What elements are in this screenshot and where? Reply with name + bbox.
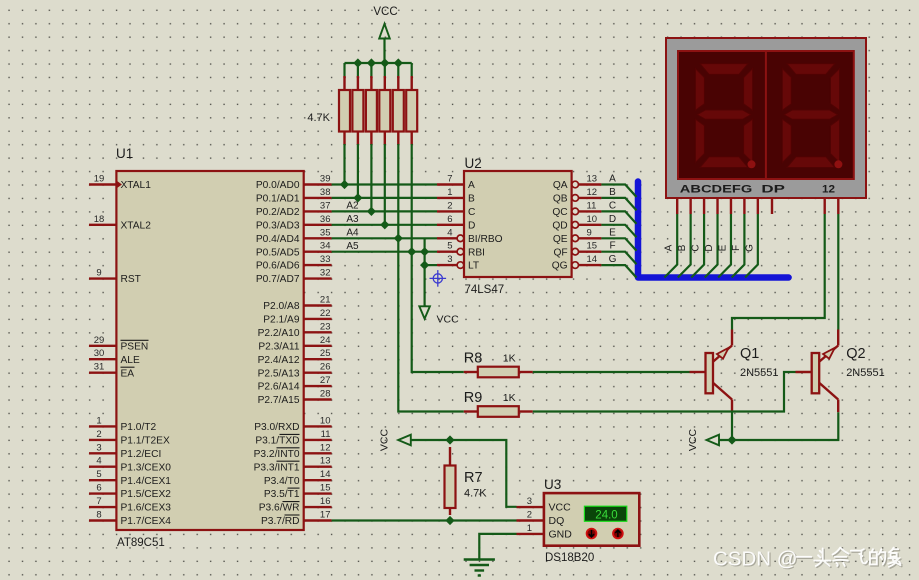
resistor R9 left lead: [464, 410, 478, 412]
svg-text:BI/RBO: BI/RBO: [468, 234, 503, 245]
svg-text:7: 7: [447, 174, 452, 185]
overline for P3.6/WR: [283, 501, 300, 503]
svg-text:G: G: [609, 254, 617, 265]
svg-text:37: 37: [320, 200, 331, 211]
wire - display G to bus: [745, 214, 758, 278]
svg-text:R9: R9: [464, 390, 483, 406]
display pin 1 stub: [824, 198, 826, 214]
svg-text:VCC: VCC: [379, 428, 391, 451]
U1 pin 31 (EA) stub: [89, 372, 116, 374]
svg-text:C: C: [609, 200, 616, 211]
svg-text:38: 38: [320, 187, 331, 198]
display digit divider: [765, 51, 767, 179]
U2 pin 5 bubble: [457, 248, 464, 255]
digit 1 decimal point: [748, 160, 756, 168]
svg-text:P3.5/T1: P3.5/T1: [264, 489, 300, 500]
svg-text:3: 3: [96, 442, 101, 453]
overline for P3.1/TXD: [280, 433, 300, 435]
svg-text:P0.6/AD6: P0.6/AD6: [256, 261, 300, 272]
svg-text:RBI: RBI: [468, 247, 485, 258]
display pin G stub: [757, 198, 759, 214]
display DP stub: [771, 198, 773, 214]
svg-text:A: A: [468, 180, 475, 191]
resistor RP6 (4.7K pack) top lead: [411, 76, 413, 90]
U2 pin 5 (RBI) stub: [437, 250, 457, 252]
display pin F stub: [743, 198, 745, 214]
U2 pin 11 (QC) stub: [578, 210, 601, 212]
U1 pin 4 (P1.3/CEX0) stub: [89, 466, 116, 468]
overline for P3.5/T1: [288, 487, 300, 489]
U2 pin 13 (QA) bubble: [572, 181, 579, 188]
ground symbol: [464, 558, 495, 560]
svg-text:5: 5: [96, 469, 101, 480]
svg-text:P0.0/AD0: P0.0/AD0: [256, 180, 300, 191]
resistor RP4 body: [379, 90, 390, 132]
wire - display pin1 to Q1 collector: [732, 214, 825, 330]
resistor RP6 bottom lead: [411, 132, 413, 146]
wire - P0.5 row to U2: [332, 251, 437, 253]
svg-text:P3.7/RD: P3.7/RD: [261, 516, 300, 527]
svg-text:A: A: [609, 174, 616, 185]
svg-text:6: 6: [96, 483, 101, 494]
svg-text:P1.2/ECI: P1.2/ECI: [121, 449, 162, 460]
resistor RP2 (4.7K pack) top lead: [357, 76, 359, 90]
U1 pin 18 (XTAL2) stub: [89, 224, 116, 226]
resistor RP4 (4.7K pack) top lead: [384, 76, 386, 90]
U3 down button: [587, 529, 597, 539]
svg-text:D: D: [468, 220, 475, 231]
digit 1 segments: [695, 64, 752, 168]
clock marker on XTAL1: [116, 181, 122, 189]
wire - GND net: [479, 534, 516, 560]
svg-text:10: 10: [320, 415, 331, 426]
wire - P0.4 row to U2: [332, 237, 437, 239]
svg-text:P1.3/CEX0: P1.3/CEX0: [121, 462, 172, 473]
wire - VCC rail to U3 pin3: [411, 440, 517, 507]
svg-text:15: 15: [320, 483, 331, 494]
svg-text:12: 12: [822, 184, 835, 196]
U2 pin 15 (QF) bubble: [572, 248, 579, 255]
svg-text:P0.2/AD2: P0.2/AD2: [256, 207, 300, 218]
U1 pin 33 (P0.6/AD6) stub: [304, 264, 332, 266]
U2 pin 12 (QB) stub: [578, 197, 601, 199]
svg-text:5: 5: [447, 241, 452, 252]
svg-text:1: 1: [527, 523, 532, 534]
U1 pin 17 (P3.7/RD) stub: [304, 519, 332, 521]
svg-text:ALE: ALE: [121, 355, 140, 366]
resistor RP1 body: [339, 90, 350, 132]
U3 pin 3 (VCC) stub: [517, 506, 544, 508]
wire - pack line 5 down to R9 row: [398, 144, 464, 412]
display pin C stub: [703, 198, 705, 214]
wire - BI/RBO branch vertical: [424, 238, 426, 306]
svg-text:74LS47: 74LS47: [465, 284, 505, 296]
svg-text:DS18B20: DS18B20: [545, 552, 594, 564]
bus (blue): [638, 182, 789, 278]
wire - display B to bus: [678, 214, 691, 278]
svg-text:CSDN @: CSDN @: [713, 548, 798, 571]
svg-text:XTAL2: XTAL2: [121, 220, 152, 231]
junction LT row: [420, 261, 429, 270]
svg-text:31: 31: [94, 362, 105, 373]
resistor R8 right lead: [519, 371, 533, 373]
svg-text:2: 2: [447, 200, 452, 211]
U1 pin 29 (PSEN) stub: [89, 345, 116, 347]
U2 pin 14 (QG) bubble: [572, 262, 579, 269]
wire - D from U2 to bus: [601, 225, 636, 238]
resistor RP1 bottom lead: [343, 132, 345, 146]
svg-text:39: 39: [320, 174, 331, 185]
wire - collector riser: [837, 330, 839, 346]
U1 pin 15 (P3.5/T1) stub: [304, 492, 332, 494]
wire - Q1 emitter to rail: [731, 412, 733, 440]
svg-text:P2.1/A9: P2.1/A9: [263, 315, 300, 326]
resistor R7 top lead: [449, 447, 451, 466]
U2 pin 4 bubble: [457, 235, 464, 242]
U1 pin 5 (P1.4/CEX1) stub: [89, 479, 116, 481]
svg-text:P1.4/CEX1: P1.4/CEX1: [121, 476, 172, 487]
svg-text:28: 28: [320, 389, 331, 400]
U3 LCD readout: [584, 506, 626, 521]
U2 pin 11 (QC) bubble: [572, 208, 579, 215]
transistor Q1 arrow: [717, 348, 729, 359]
svg-text:U1: U1: [116, 146, 133, 161]
svg-text:1K: 1K: [503, 392, 516, 404]
wire - collector riser: [731, 330, 733, 346]
wire - pack rail drop 6: [411, 63, 413, 78]
transistor Q1 base bar: [706, 353, 714, 393]
origin marker (blue crosshair): [430, 270, 447, 287]
svg-text:QB: QB: [553, 194, 568, 205]
U1 pin 25 (P2.4/A12) stub: [304, 358, 332, 360]
svg-text:P0.1/AD1: P0.1/AD1: [256, 194, 300, 205]
svg-text:C: C: [691, 244, 702, 251]
svg-text:29: 29: [94, 335, 105, 346]
resistor RP5 (4.7K pack) top lead: [397, 76, 399, 90]
svg-text:R8: R8: [464, 351, 483, 367]
svg-text:GND: GND: [549, 529, 573, 541]
svg-text:VCC: VCC: [687, 428, 699, 451]
svg-text:P0.7/AD7: P0.7/AD7: [256, 274, 300, 285]
svg-text:QF: QF: [553, 247, 567, 258]
power symbol VCC (left arrow, transistor rail): [707, 435, 720, 446]
U3 pin 1 (GND) stub: [517, 533, 544, 535]
svg-text:VCC: VCC: [373, 6, 397, 18]
svg-text:PSEN: PSEN: [121, 341, 149, 352]
wire - display F to bus: [732, 214, 745, 278]
svg-text:11: 11: [321, 429, 331, 440]
svg-text:P3.4/T0: P3.4/T0: [264, 476, 300, 487]
svg-text:1: 1: [447, 187, 452, 198]
display pin A stub: [676, 198, 678, 214]
overline for P3.7/RD: [285, 514, 300, 516]
wire - B from U2 to bus: [601, 198, 636, 211]
digit 2 segments: [782, 64, 839, 168]
wire - DQ net (P3.7 to U3 DQ): [332, 519, 517, 521]
U2 pin 12 (QB) bubble: [572, 195, 579, 202]
svg-text:D: D: [704, 244, 715, 251]
overline for P3.3/INT1: [277, 460, 300, 462]
U1 pin 23 (P2.2/A10) stub: [304, 331, 332, 333]
U1 pin 37 (P0.2/AD2) stub: [304, 210, 332, 212]
svg-text:A: A: [664, 244, 675, 251]
U3 pin 2 (DQ) stub: [517, 519, 544, 521]
svg-text:AT89C51: AT89C51: [117, 537, 165, 549]
U1 pin 30 (ALE) stub: [89, 358, 116, 360]
svg-text:10: 10: [587, 214, 598, 225]
svg-text:9: 9: [96, 268, 101, 279]
svg-text:25: 25: [320, 348, 331, 359]
svg-text:12: 12: [587, 187, 598, 198]
U1 pin 7 (P1.6/CEX3) stub: [89, 506, 116, 508]
svg-text:27: 27: [320, 375, 331, 386]
svg-text:P2.2/A10: P2.2/A10: [258, 328, 300, 339]
wire - E from U2 to bus: [601, 238, 636, 251]
U2 pin 7 (A) stub: [437, 183, 464, 185]
svg-text:P0.4/AD4: P0.4/AD4: [256, 234, 300, 245]
svg-text:P1.0/T2: P1.0/T2: [121, 422, 157, 433]
U1 pin 32 (P0.7/AD7) stub: [304, 277, 332, 279]
svg-text:4: 4: [96, 456, 101, 467]
svg-text:QC: QC: [552, 207, 567, 218]
wire - pack line 4 to P0.3: [384, 144, 386, 225]
wire - C from U2 to bus: [601, 211, 636, 224]
svg-text:G: G: [744, 244, 755, 252]
U2 pin 2 (C) stub: [437, 210, 464, 212]
wire - R9 to Q2 base: [533, 372, 796, 412]
resistor R8 body: [478, 367, 519, 378]
svg-text:4.7K: 4.7K: [464, 488, 487, 500]
wire - display pin2 to Q2 collector: [837, 214, 839, 330]
display outer frame: [666, 38, 866, 198]
svg-text:D: D: [609, 214, 616, 225]
digit 2 decimal point: [834, 160, 842, 168]
U1 pin 26 (P2.5/A13) stub: [304, 372, 332, 374]
U1 pin 39 (P0.0/AD0) stub: [304, 183, 332, 185]
svg-text:B: B: [677, 244, 688, 251]
U2 pin 3 bubble: [457, 262, 464, 269]
svg-text:LT: LT: [468, 261, 479, 272]
transistor Q1 emitter lead: [731, 400, 733, 413]
resistor RP3 bottom lead: [370, 132, 372, 146]
svg-text:P1.1/T2EX: P1.1/T2EX: [121, 436, 170, 447]
svg-text:2N5551: 2N5551: [740, 367, 779, 379]
wire - display D to bus: [705, 214, 718, 278]
power symbol VCC (up arrow): [379, 24, 390, 39]
svg-text:Q1: Q1: [740, 346, 759, 362]
U1 pin 13 (P3.3/INT1) stub: [304, 466, 332, 468]
svg-text:19: 19: [94, 174, 105, 185]
U1 pin 6 (P1.5/CEX2) stub: [89, 492, 116, 494]
svg-text:B: B: [609, 187, 616, 198]
wire - P0.1 row to U2: [332, 197, 437, 199]
display pin B stub: [689, 198, 691, 214]
wire - pack line 3 to P0.2: [370, 144, 372, 211]
power symbol VCC (down arrow at U2): [419, 306, 430, 318]
svg-text:P2.7/A15: P2.7/A15: [258, 395, 300, 406]
junction pack line 4: [380, 220, 389, 229]
svg-text:P2.4/A12: P2.4/A12: [258, 355, 300, 366]
junction pack line 1: [340, 180, 349, 189]
svg-text:QE: QE: [553, 234, 568, 245]
wire - display A to bus: [664, 214, 677, 278]
U1 pin 27 (P2.6/A14) stub: [304, 385, 332, 387]
U2 pin 10 (QD) bubble: [572, 222, 579, 229]
svg-text:QD: QD: [552, 220, 567, 231]
transistor Q1 collector diagonal: [712, 346, 733, 364]
resistor RP3 body: [366, 90, 377, 132]
svg-text:2: 2: [96, 429, 101, 440]
transistor Q2 arrow: [823, 348, 835, 359]
U1 pin 16 (P3.6/WR) stub: [304, 506, 332, 508]
U1 pin 36 (P0.3/AD3) stub: [304, 224, 332, 226]
junction on pack rail: [380, 58, 389, 67]
svg-text:R7: R7: [464, 470, 483, 486]
svg-text:1: 1: [96, 415, 101, 426]
U1 pin 19 (XTAL1) stub: [89, 183, 116, 185]
svg-text:VCC: VCC: [549, 502, 572, 514]
svg-text:12: 12: [320, 442, 331, 453]
svg-text:15: 15: [587, 241, 598, 252]
svg-text:P3.0/RXD: P3.0/RXD: [254, 422, 299, 433]
U1 pin 28 (P2.7/A15) stub: [304, 398, 332, 400]
U2 pin 15 (QF) stub: [578, 250, 601, 252]
svg-text:F: F: [609, 241, 615, 252]
svg-text:QG: QG: [552, 261, 568, 272]
svg-text:2N5551: 2N5551: [846, 367, 885, 379]
svg-text:XTAL1: XTAL1: [121, 180, 152, 191]
svg-text:16: 16: [320, 496, 331, 507]
svg-text:8: 8: [96, 510, 101, 521]
svg-text:13: 13: [587, 174, 598, 185]
svg-text:23: 23: [320, 321, 331, 332]
overline for PSEN: [121, 339, 149, 341]
display pin D stub: [716, 198, 718, 214]
svg-text:13: 13: [320, 456, 331, 467]
U1 pin 22 (P2.1/A9) stub: [304, 318, 332, 320]
wire - Q2 emitter to rail: [719, 412, 838, 440]
resistor R9 right lead: [519, 410, 533, 412]
transistor Q1 emitter diagonal: [712, 382, 733, 400]
resistor R7 bottom lead: [449, 508, 451, 515]
U2 pin 10 (QD) stub: [578, 224, 601, 226]
junction on pack rail: [394, 58, 403, 67]
svg-text:3: 3: [447, 254, 452, 265]
svg-text:P2.5/A13: P2.5/A13: [258, 368, 300, 379]
svg-text:P3.2/INT0: P3.2/INT0: [254, 449, 300, 460]
svg-text:A4: A4: [346, 228, 359, 239]
U1 pin 24 (P2.3/A11) stub: [304, 345, 332, 347]
svg-text:E: E: [609, 227, 616, 238]
svg-text:22: 22: [320, 308, 331, 319]
svg-text:2: 2: [527, 510, 532, 521]
wire - pack line 6 down to R8 row: [412, 144, 464, 372]
U1 pin 2 (P1.1/T2EX) stub: [89, 439, 116, 441]
U2 pin 4 (BI/RBO) stub: [437, 237, 457, 239]
svg-text:C: C: [468, 207, 475, 218]
IC U1 AT89C51 body: [116, 171, 303, 530]
U3 up button: [613, 529, 623, 539]
svg-text:B: B: [468, 194, 475, 205]
svg-text:E: E: [717, 244, 728, 251]
svg-text:DP: DP: [761, 184, 785, 196]
svg-text:32: 32: [320, 268, 331, 279]
svg-text:P3.6/WR: P3.6/WR: [259, 503, 300, 514]
U1 pin 11 (P3.1/TXD) stub: [304, 439, 332, 441]
watermark CSDN: [713, 548, 902, 572]
wire - Q1 base: [690, 371, 706, 373]
wire - P0.2 row to U2: [332, 210, 437, 212]
svg-text:18: 18: [94, 214, 105, 225]
svg-text:ABCDEFG: ABCDEFG: [680, 184, 753, 196]
resistor RP6 body: [406, 90, 417, 132]
junction RBI row: [420, 247, 429, 256]
display inner panel: [678, 51, 854, 179]
junction Q1 emitter / rail: [727, 435, 736, 444]
svg-text:7: 7: [96, 496, 101, 507]
svg-text:24.0: 24.0: [595, 509, 617, 521]
U1 pin 35 (P0.4/AD4) stub: [304, 237, 332, 239]
transistor Q2 collector diagonal: [818, 346, 839, 364]
resistor RP2 body: [352, 90, 363, 132]
wire - pack line 1 to P0.0: [343, 144, 345, 185]
svg-text:VCC: VCC: [437, 314, 460, 326]
svg-text:F: F: [731, 245, 742, 251]
junction pack line 3: [367, 207, 376, 216]
svg-text:Q2: Q2: [846, 346, 865, 362]
svg-text:P1.6/CEX3: P1.6/CEX3: [121, 503, 172, 514]
junction R7 bottom / DQ: [445, 516, 454, 525]
resistor RP3 (4.7K pack) top lead: [370, 76, 372, 90]
wire - Q2 base: [796, 371, 812, 373]
svg-text:4.7K: 4.7K: [307, 112, 330, 124]
svg-text:P3.1/TXD: P3.1/TXD: [255, 436, 299, 447]
svg-text:P2.6/A14: P2.6/A14: [258, 382, 300, 393]
wire - LT row stub: [425, 264, 437, 266]
junction pack line 2: [353, 193, 362, 202]
U2 pin 13 (QA) stub: [578, 183, 601, 185]
resistor RP2 bottom lead: [357, 132, 359, 146]
U2 pin 1 (B) stub: [437, 197, 464, 199]
U1 pin 38 (P0.1/AD1) stub: [304, 197, 332, 199]
U2 pin 3 (LT) stub: [437, 264, 457, 266]
svg-text:EA: EA: [121, 368, 135, 379]
svg-text:DQ: DQ: [549, 515, 565, 527]
svg-text:1K: 1K: [503, 353, 516, 365]
svg-text:U2: U2: [465, 156, 482, 171]
svg-text:17: 17: [320, 510, 331, 521]
wire - pack rail drop 3: [370, 63, 372, 78]
svg-text:P1.5/CEX2: P1.5/CEX2: [121, 489, 172, 500]
U1 pin 8 (P1.7/CEX4) stub: [89, 519, 116, 521]
resistor RP1 (4.7K pack) top lead: [343, 76, 345, 90]
power symbol VCC (left arrow, R7): [398, 435, 411, 446]
svg-text:34: 34: [320, 241, 331, 252]
svg-text:P2.0/A8: P2.0/A8: [263, 301, 300, 312]
svg-text:6: 6: [447, 214, 452, 225]
resistor R9 body: [478, 406, 519, 417]
svg-text:RST: RST: [121, 274, 141, 285]
wire - pack line 2 to P0.1: [357, 144, 359, 198]
wire - A from U2 to bus: [601, 185, 636, 198]
resistor RP5 body: [393, 90, 404, 132]
svg-text:36: 36: [320, 214, 331, 225]
U1 pin 14 (P3.4/T0) stub: [304, 479, 332, 481]
U2 pin 9 (QE) bubble: [572, 235, 579, 242]
wire - P0.0 row to U2: [332, 183, 437, 185]
wire - P0.3 row to U2: [332, 224, 437, 226]
svg-text:P2.3/A11: P2.3/A11: [258, 341, 299, 352]
